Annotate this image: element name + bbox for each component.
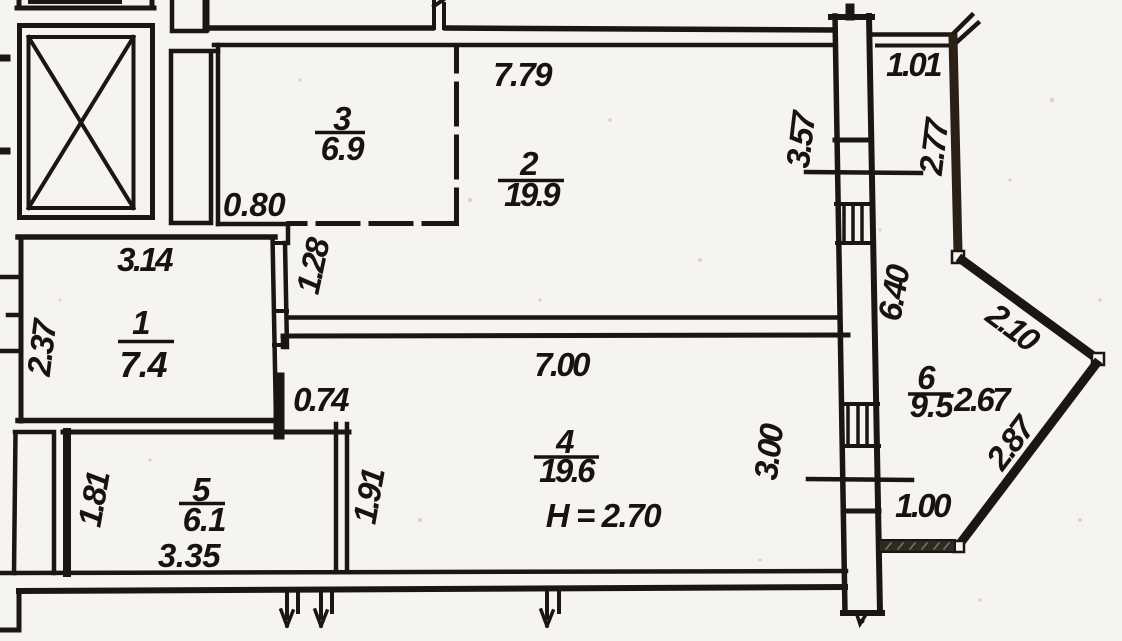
north wall notch	[434, 0, 444, 28]
label room 4 underline	[534, 455, 599, 459]
svg-text:6.9: 6.9	[321, 130, 366, 167]
room 5 top wall	[63, 430, 349, 435]
right wall column crossbar B	[843, 509, 879, 514]
elevator shaft outer wall	[20, 26, 153, 218]
bay window right wall	[953, 38, 958, 252]
elevator shaft top box	[17, 0, 154, 8]
outer bottom wall left corner	[0, 591, 19, 630]
svg-text:7.79: 7.79	[493, 56, 553, 93]
svg-text:1.00: 1.00	[895, 487, 952, 524]
left edge stubs near elevator	[0, 58, 7, 151]
north outer wall inner line	[214, 43, 833, 48]
right wall column top tab	[846, 8, 855, 16]
svg-text:7.4: 7.4	[119, 344, 167, 385]
svg-text:3.57: 3.57	[779, 108, 823, 170]
bottom arrow mark 3	[541, 592, 559, 626]
right wall column crossbar A	[835, 138, 870, 143]
room 5 left wall	[63, 432, 71, 573]
wall below 0.74 door	[274, 378, 285, 434]
bay node B	[1092, 353, 1104, 365]
svg-text:0.74: 0.74	[293, 381, 349, 418]
bottom arrow mark 1	[281, 592, 298, 626]
hatched sill wall room 6 bottom	[879, 540, 955, 552]
room 1 left wall	[19, 237, 24, 421]
right wall column right line	[869, 16, 880, 613]
room 1 right wall outer line	[285, 243, 287, 347]
label room 6 underline	[908, 392, 951, 396]
svg-text:6.1: 6.1	[183, 501, 226, 538]
label room 3 underline	[315, 131, 365, 135]
label room 2 underline	[498, 179, 564, 183]
bottom arrow mark 2	[315, 592, 332, 626]
room 3 dashed corner	[447, 214, 457, 224]
bottom arrow mark 4	[857, 615, 865, 624]
svg-text:2.77: 2.77	[912, 115, 956, 178]
svg-text:9.5: 9.5	[910, 387, 955, 424]
corridor strip lower box	[171, 51, 218, 223]
room 3 dashed right boundary	[454, 46, 459, 223]
right wall column left line	[835, 16, 845, 613]
elevator shaft X cross	[29, 37, 134, 208]
divider wall rooms2/4 top line	[287, 315, 837, 320]
room 1 right wall caps	[274, 243, 288, 345]
bay node C	[953, 541, 964, 552]
window symbol 2 rails	[841, 404, 879, 446]
svg-text:1.01: 1.01	[886, 46, 941, 83]
right wall column top cap	[831, 14, 872, 20]
right wall column bottom cap	[843, 610, 882, 616]
svg-text:H = 2.70: H = 2.70	[546, 497, 663, 534]
room 3 step to room1 wall	[286, 224, 291, 243]
svg-text:3.00: 3.00	[747, 421, 791, 482]
paper speckles	[59, 79, 1102, 602]
rooms 4/5 divider wall left line	[334, 424, 339, 572]
room 1 left wall stubs	[0, 277, 19, 351]
svg-text:19.6: 19.6	[539, 452, 596, 489]
bay diagonal wall 2.87	[959, 364, 1096, 545]
corridor strip upper box right line thick	[203, 0, 210, 29]
label room 1 underline	[118, 340, 174, 344]
bay diagonal wall 2.10	[962, 260, 1096, 358]
wall break mark top right	[951, 15, 978, 41]
svg-text:0.80: 0.80	[223, 186, 286, 223]
outer bottom wall	[19, 587, 845, 591]
svg-text:3.14: 3.14	[117, 241, 173, 278]
svg-text:7.00: 7.00	[534, 346, 591, 383]
divider wall left corner	[281, 338, 286, 347]
room 3 bottom solid wall	[218, 222, 288, 227]
bay node A	[952, 251, 964, 263]
room 1 top wall	[18, 234, 275, 240]
svg-text:3.35: 3.35	[158, 537, 221, 574]
svg-text:19.9: 19.9	[504, 176, 561, 213]
rooms 4/5 divider wall right line	[345, 424, 350, 572]
dimension line 3.00/1.00 boundary	[808, 479, 912, 480]
squiggle dot	[860, 619, 865, 624]
divider wall rooms2/4 bottom line	[283, 335, 848, 336]
window symbol 2 bars	[848, 404, 867, 446]
svg-text:2.67: 2.67	[953, 381, 1012, 418]
loggia thin box left of room 5	[14, 432, 54, 573]
wall over room 6 top	[871, 32, 951, 37]
corridor strip upper box	[172, 0, 206, 31]
room 1 bottom wall	[18, 418, 278, 424]
room 1 right wall inner line	[273, 237, 277, 420]
window symbol 1 rails	[836, 204, 872, 243]
elevator shaft inner box	[29, 37, 134, 208]
room 3 left wall second line	[216, 45, 221, 224]
dimension line 3.57/6.40 boundary	[806, 172, 921, 173]
wall over room 6 inner line	[877, 44, 951, 48]
label room 5 underline	[179, 502, 225, 506]
north outer wall top line	[212, 28, 833, 30]
svg-text:1: 1	[132, 304, 149, 341]
window symbol 1 bars	[844, 204, 862, 243]
room 3 dashed bottom boundary	[289, 221, 456, 226]
interior bottom line rooms 5 and 4	[1, 571, 846, 573]
svg-text:2.37: 2.37	[20, 316, 64, 379]
